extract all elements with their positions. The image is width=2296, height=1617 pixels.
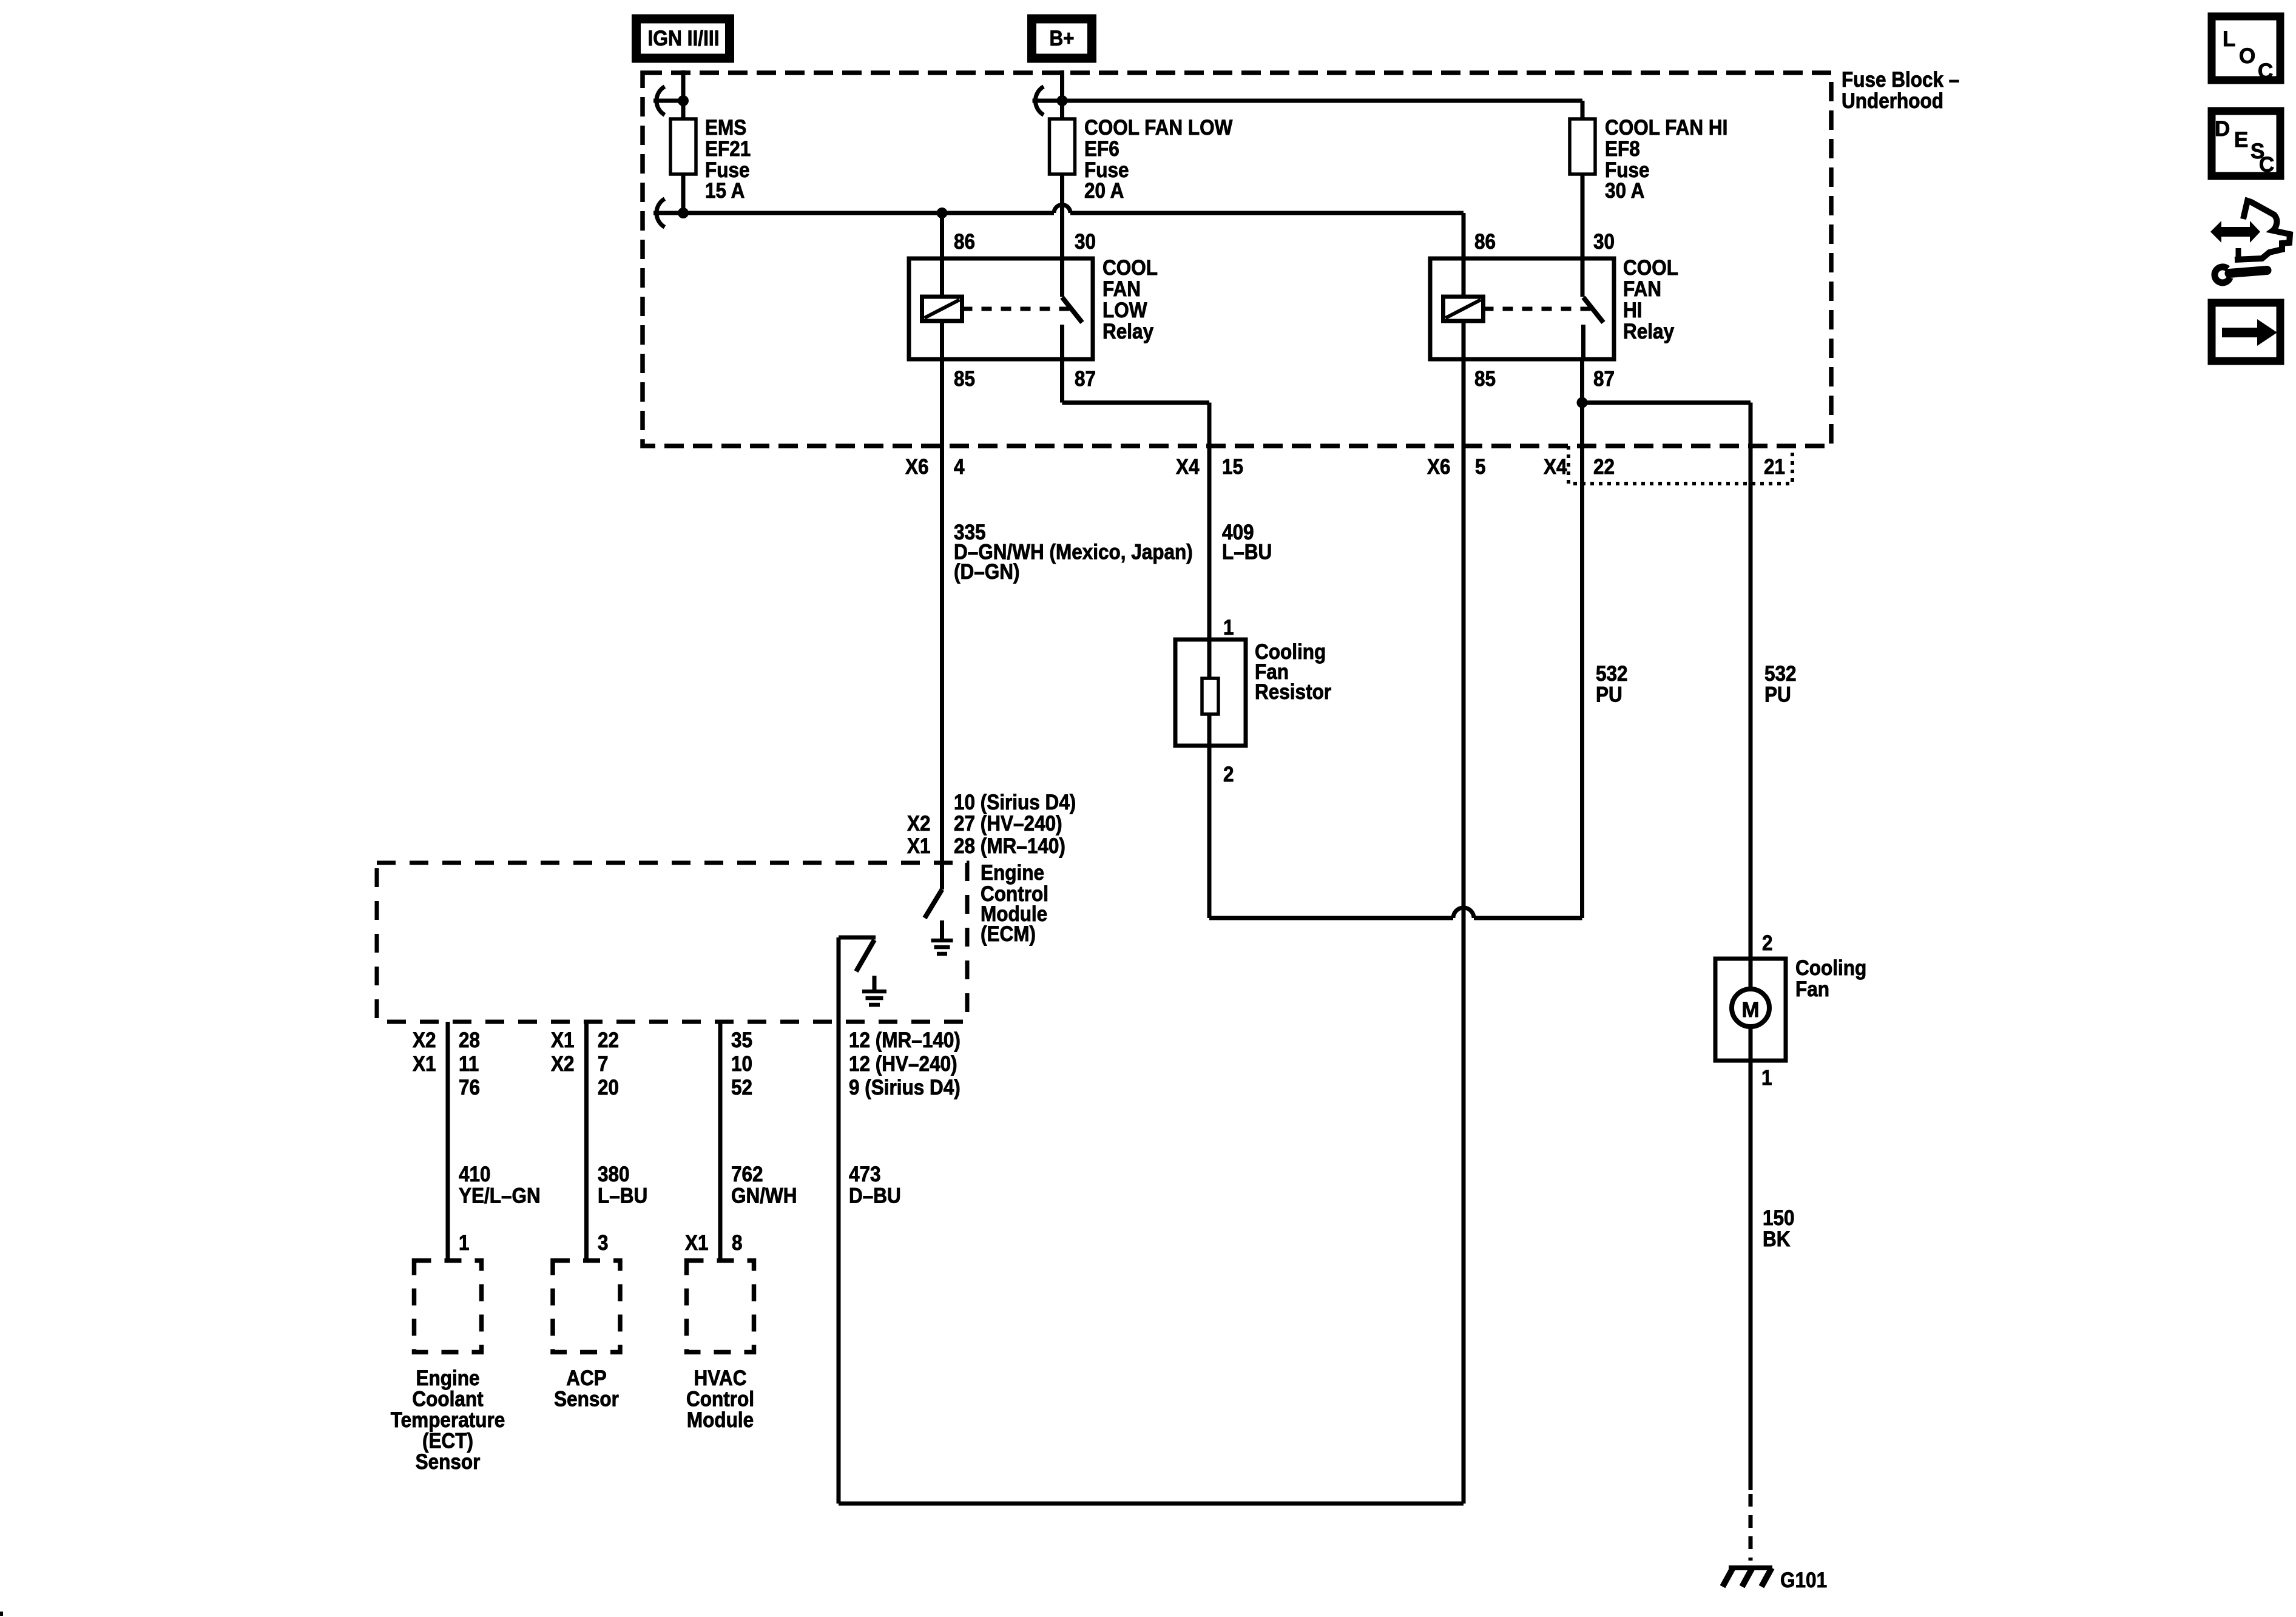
- svg-text:D–BU: D–BU: [849, 1184, 901, 1208]
- connector junction at ignition bus: [653, 199, 689, 228]
- fuse EF6 COOL FAN LOW 20 A: [1050, 119, 1075, 174]
- legend icon LOC box: [2212, 16, 2280, 83]
- svg-text:532: 532: [1764, 662, 1797, 686]
- legend icon vehicle diagnostics (car, arrow, wrench): [2210, 201, 2290, 283]
- ECM internal ground for LOW relay: [931, 920, 953, 954]
- svg-text:Resistor: Resistor: [1255, 680, 1331, 704]
- svg-text:15 A: 15 A: [705, 179, 745, 203]
- wire ECM to ACP sensor (circuit 380): [584, 1022, 589, 1258]
- svg-text:473: 473: [849, 1163, 881, 1186]
- label Engine Control Module (ECM): [981, 861, 1048, 946]
- label circuit 473 D-BU: [849, 1163, 901, 1208]
- svg-text:Cooling: Cooling: [1795, 956, 1866, 980]
- svg-text:X4: X4: [1544, 455, 1567, 479]
- svg-text:5: 5: [1475, 455, 1486, 479]
- label G101: [1780, 1568, 1827, 1592]
- label COOL FAN LOW Relay: [1102, 256, 1158, 343]
- svg-text:Fan: Fan: [1795, 977, 1829, 1001]
- svg-text:10: 10: [731, 1052, 752, 1076]
- svg-text:12 (MR–140): 12 (MR–140): [849, 1028, 961, 1052]
- svg-text:YE/L–GN: YE/L–GN: [459, 1184, 541, 1208]
- svg-text:Relay: Relay: [1623, 320, 1675, 343]
- label circuit 335 D-GN/WH: [954, 521, 1193, 584]
- svg-text:Coolant: Coolant: [412, 1388, 484, 1411]
- svg-text:HVAC: HVAC: [694, 1366, 747, 1390]
- svg-text:Engine: Engine: [416, 1366, 480, 1390]
- svg-text:X2: X2: [551, 1052, 575, 1076]
- ECM internal switch for LOW relay ground: [925, 890, 942, 918]
- cooling fan resistor box: [1175, 640, 1246, 746]
- svg-text:B+: B+: [1049, 27, 1074, 50]
- label COOL FAN LOW EF6 Fuse 20 A: [1084, 116, 1232, 203]
- connector labels X6 5 on relay HI pin85: [1427, 455, 1486, 479]
- svg-text:Relay: Relay: [1102, 320, 1154, 343]
- legend icon next-page arrow box: [2212, 303, 2280, 361]
- svg-text:C: C: [2259, 153, 2274, 177]
- svg-text:85: 85: [1474, 367, 1496, 391]
- fuse EF8 COOL FAN HI 30 A: [1570, 119, 1595, 174]
- svg-text:15: 15: [1222, 455, 1243, 479]
- svg-text:PU: PU: [1596, 683, 1622, 707]
- pin label 2 of cooling fan: [1762, 931, 1773, 955]
- svg-text:2: 2: [1223, 763, 1234, 786]
- svg-text:11: 11: [459, 1052, 479, 1076]
- svg-text:87: 87: [1593, 367, 1615, 391]
- svg-text:9 (Sirius D4): 9 (Sirius D4): [849, 1076, 961, 1099]
- power feed box B+: [1032, 19, 1092, 58]
- wire resistor output to 532 junction: [1209, 746, 1582, 918]
- svg-text:76: 76: [459, 1076, 480, 1099]
- svg-text:FAN: FAN: [1102, 277, 1141, 301]
- svg-text:COOL FAN LOW: COOL FAN LOW: [1084, 116, 1232, 140]
- svg-text:EF21: EF21: [705, 137, 751, 161]
- label Fuse Block - Underhood: [1842, 68, 1959, 113]
- wire IGN II/III feed into fuse block: [681, 70, 686, 119]
- svg-text:BK: BK: [1763, 1227, 1791, 1251]
- svg-text:Sensor: Sensor: [554, 1388, 619, 1411]
- svg-text:X1: X1: [907, 834, 931, 858]
- connector junction on IGN feed: [653, 87, 689, 115]
- svg-text:410: 410: [459, 1163, 491, 1186]
- fuse EF21 EMS 15 A: [670, 119, 696, 174]
- label Cooling Fan: [1795, 956, 1866, 1001]
- svg-text:28 (MR–140): 28 (MR–140): [954, 834, 1065, 858]
- wire ignition bus down to COOL FAN LOW relay coil: [940, 213, 944, 297]
- label circuit 762 GN/WH: [731, 1163, 797, 1208]
- wire ECM to HVAC control module (circuit 762): [718, 1022, 723, 1258]
- svg-text:Module: Module: [687, 1408, 754, 1432]
- svg-text:20: 20: [598, 1076, 619, 1099]
- junction dot ignition bus to COOL FAN LOW relay coil: [937, 208, 948, 218]
- connector labels X4 22 21: [1544, 455, 1785, 479]
- svg-text:X2: X2: [413, 1028, 436, 1052]
- wire cooling fan to ground G101 (circuit 150 BK): [1749, 1061, 1753, 1561]
- svg-text:X1: X1: [685, 1231, 709, 1255]
- svg-text:L–BU: L–BU: [1222, 541, 1272, 564]
- cooling fan motor M: [1715, 959, 1786, 1061]
- svg-text:X6: X6: [1427, 455, 1451, 479]
- svg-text:COOL: COOL: [1623, 256, 1678, 280]
- svg-text:1: 1: [459, 1231, 470, 1255]
- pin label 1 of resistor: [1223, 616, 1234, 640]
- label COOL FAN HI Relay: [1623, 256, 1678, 343]
- svg-text:X1: X1: [413, 1052, 436, 1076]
- svg-text:Engine: Engine: [981, 861, 1044, 885]
- svg-text:22: 22: [1593, 455, 1615, 479]
- ignition bus wire to relay coils: [683, 205, 1464, 214]
- engine control module dashed box: [377, 863, 967, 1022]
- svg-text:150: 150: [1763, 1206, 1795, 1230]
- wire relay LOW pin87 to cooling fan resistor (circuit 409): [1062, 359, 1210, 640]
- wire EF8 fuse to COOL FAN HI relay 30 pin: [1581, 174, 1585, 297]
- svg-text:20 A: 20 A: [1084, 179, 1124, 203]
- connector labels X6 4 on circuit 335: [905, 455, 965, 479]
- svg-text:PU: PU: [1764, 683, 1791, 707]
- pin labels X1 8 of HVAC control module: [685, 1231, 743, 1255]
- label circuit 409 L-BU: [1222, 521, 1272, 564]
- svg-text:10 (Sirius D4): 10 (Sirius D4): [954, 791, 1076, 814]
- svg-text:COOL FAN HI: COOL FAN HI: [1605, 116, 1727, 140]
- svg-text:L: L: [2223, 27, 2235, 51]
- svg-text:86: 86: [1474, 230, 1496, 254]
- HVAC control module dashed box: [687, 1261, 754, 1352]
- label EMS EF21 Fuse 15 A: [705, 116, 751, 203]
- pin label 1 of ECT sensor: [459, 1231, 470, 1255]
- pin labels 35 10 52 on circuit 762: [731, 1028, 752, 1099]
- svg-text:M: M: [1741, 998, 1759, 1022]
- label circuit 410 YE/L-GN: [459, 1163, 541, 1208]
- svg-text:87: 87: [1075, 367, 1096, 391]
- svg-text:30 A: 30 A: [1605, 179, 1644, 203]
- svg-text:FAN: FAN: [1623, 277, 1661, 301]
- svg-text:(ECT): (ECT): [422, 1430, 473, 1453]
- pin label 3 of ACP sensor: [598, 1231, 609, 1255]
- svg-text:21: 21: [1764, 455, 1785, 479]
- svg-text:(ECM): (ECM): [981, 922, 1036, 946]
- svg-text:X6: X6: [905, 455, 929, 479]
- pin label 1 of cooling fan: [1761, 1066, 1772, 1090]
- svg-text:532: 532: [1596, 662, 1628, 686]
- wire motor feed branch (circuit 532 right): [1582, 403, 1751, 959]
- svg-text:12 (HV–240): 12 (HV–240): [849, 1052, 957, 1076]
- junction dot relay HI pin87 to motor branch: [1577, 397, 1588, 408]
- engine coolant temperature sensor dashed box: [414, 1261, 482, 1352]
- svg-text:G101: G101: [1780, 1568, 1827, 1592]
- wire EMS fuse to ignition bus: [681, 174, 686, 213]
- svg-text:30: 30: [1075, 230, 1096, 254]
- label Engine Coolant Temperature (ECT) Sensor: [391, 1366, 505, 1474]
- pin labels 12 12 9 on circuit 473: [849, 1028, 961, 1099]
- svg-text:28: 28: [459, 1028, 480, 1052]
- label circuit 532 PU right: [1764, 662, 1797, 707]
- svg-text:X4: X4: [1176, 455, 1200, 479]
- svg-text:4: 4: [954, 455, 965, 479]
- svg-text:O: O: [2239, 44, 2255, 68]
- svg-text:LOW: LOW: [1102, 299, 1147, 322]
- svg-text:Fuse Block –: Fuse Block –: [1842, 68, 1959, 92]
- label ACP Sensor: [554, 1366, 619, 1411]
- svg-text:1: 1: [1761, 1066, 1772, 1090]
- svg-text:X1: X1: [551, 1028, 575, 1052]
- svg-text:COOL: COOL: [1102, 256, 1158, 280]
- svg-text:380: 380: [598, 1163, 630, 1186]
- ECM internal switch for HI relay ground (circuit 473): [839, 937, 876, 971]
- wire ignition bus down to COOL FAN HI relay coil: [1462, 213, 1466, 297]
- wire EF6 fuse to relay 30 pin: [1060, 174, 1064, 297]
- svg-text:2: 2: [1762, 931, 1773, 955]
- svg-text:86: 86: [954, 230, 975, 254]
- pin labels 86 30 85 87 of COOL FAN HI relay: [1474, 230, 1615, 391]
- svg-text:1: 1: [1223, 616, 1234, 640]
- svg-text:GN/WH: GN/WH: [731, 1184, 797, 1208]
- label Cooling Fan Resistor: [1255, 640, 1331, 704]
- pin labels 86 30 85 87 of COOL FAN LOW relay: [954, 230, 1096, 391]
- relay COOL FAN HI (coil, dashed link, switch): [1430, 258, 1614, 359]
- legend icon DESC box: [2212, 111, 2280, 177]
- svg-text:Underhood: Underhood: [1842, 89, 1943, 113]
- wire ECM to ECT sensor (circuit 410): [446, 1022, 450, 1258]
- wire relay HI pin85 to ECM ground switch (circuit 473 path): [1462, 321, 1466, 1504]
- svg-text:85: 85: [954, 367, 975, 391]
- pin labels X1 22 X2 7 20 on circuit 380: [551, 1028, 619, 1099]
- pin label 2 of resistor: [1223, 763, 1234, 786]
- svg-text:8: 8: [732, 1231, 743, 1255]
- label circuit 150 BK: [1763, 1206, 1795, 1251]
- fuse block - underhood dashed box: [643, 73, 1831, 446]
- ECM internal ground for HI relay: [862, 976, 886, 1005]
- B+ bus wire to EF8 fuse: [1062, 101, 1583, 119]
- svg-text:Sensor: Sensor: [416, 1450, 481, 1474]
- svg-text:(D–GN): (D–GN): [954, 560, 1020, 584]
- relay COOL FAN LOW (coil, dashed link, switch): [909, 258, 1093, 359]
- scan artifact dot bottom-left: [0, 1612, 3, 1616]
- svg-text:27 (HV–240): 27 (HV–240): [954, 812, 1062, 836]
- label circuit 380 L-BU: [598, 1163, 647, 1208]
- label circuit 532 PU left: [1596, 662, 1628, 707]
- svg-text:HI: HI: [1623, 299, 1643, 322]
- ACP sensor dashed box: [553, 1261, 620, 1352]
- pin labels 10 27 28 at ECM input: [907, 791, 1076, 858]
- svg-text:EMS: EMS: [705, 116, 746, 140]
- label HVAC Control Module: [686, 1366, 754, 1432]
- wire circuit 473 from ECM to relay HI pin85: [839, 937, 1464, 1504]
- svg-text:C: C: [2258, 59, 2273, 83]
- connector labels X4 15 on circuit 409: [1176, 455, 1243, 479]
- svg-text:IGN II/III: IGN II/III: [648, 27, 720, 50]
- pin labels X2 28 X1 11 76 on circuit 410: [413, 1028, 480, 1099]
- svg-text:ACP: ACP: [566, 1366, 607, 1390]
- wire B+ feed into fuse block: [1060, 70, 1064, 119]
- svg-text:X2: X2: [907, 812, 931, 836]
- svg-text:3: 3: [598, 1231, 609, 1255]
- svg-text:Temperature: Temperature: [391, 1408, 505, 1432]
- svg-text:Control: Control: [686, 1388, 754, 1411]
- svg-text:762: 762: [731, 1163, 763, 1186]
- svg-text:E: E: [2234, 128, 2248, 152]
- svg-text:30: 30: [1593, 230, 1615, 254]
- wire relay LOW pin85 to ECM (circuit 335): [940, 321, 944, 890]
- svg-text:7: 7: [598, 1052, 609, 1076]
- svg-text:35: 35: [731, 1028, 752, 1052]
- svg-text:L–BU: L–BU: [598, 1184, 647, 1208]
- wire relay HI pin87 down (circuit 532): [1580, 359, 1584, 918]
- dotted connector sub-box X4 22/21: [1568, 446, 1792, 484]
- svg-text:EF6: EF6: [1084, 137, 1119, 161]
- power feed box IGN II/III: [636, 19, 730, 58]
- connector junction on B+ feed: [1033, 87, 1068, 115]
- svg-text:EF8: EF8: [1605, 137, 1640, 161]
- svg-text:22: 22: [598, 1028, 619, 1052]
- svg-text:D: D: [2215, 117, 2230, 141]
- svg-text:52: 52: [731, 1076, 752, 1099]
- label COOL FAN HI EF8 Fuse 30 A: [1605, 116, 1727, 203]
- ground G101 symbol: [1723, 1568, 1772, 1587]
